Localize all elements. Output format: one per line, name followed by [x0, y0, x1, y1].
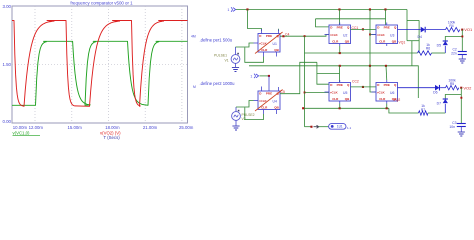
meter U7 [329, 124, 346, 130]
ground below C3 [458, 131, 465, 133]
node dot rail2-c [385, 65, 387, 67]
diode D6 [435, 85, 439, 91]
ammeter arrow [314, 125, 319, 128]
svg-text:VO1: VO1 [464, 27, 473, 32]
svg-text:U6: U6 [390, 91, 394, 95]
svg-text:15.00m: 15.00m [68, 125, 83, 130]
node dot rail2-b [369, 65, 371, 67]
flip-flop U2 [329, 25, 351, 44]
node dot CC2 [362, 86, 364, 88]
flip-flop U6 [376, 83, 398, 102]
svg-text:PRE: PRE [266, 92, 272, 96]
wire U1 D2 stub [278, 29, 280, 31]
wire U6 QB to line108 [386, 104, 388, 109]
svg-text:U3: U3 [390, 34, 394, 38]
svg-text:R7: R7 [421, 108, 425, 112]
svg-text:>CLK: >CLK [377, 33, 386, 37]
svg-text:25.00m: 25.00m [179, 125, 194, 130]
pulse source V1 [231, 55, 240, 64]
wire U1 CLR loop [245, 48, 264, 63]
svg-text:1.50: 1.50 [2, 62, 11, 67]
wire U5 Q to U6 [351, 86, 377, 88]
node dot VO2 mid [460, 97, 462, 99]
wire arrow to meter [319, 126, 329, 128]
green trace v(VC1) [12, 41, 188, 105]
node dot rail1-c [369, 8, 371, 10]
plot frame [12, 6, 188, 123]
wire U2 CLR to line53 [339, 46, 341, 53]
svg-text:PRE: PRE [337, 83, 343, 87]
resistor R7 [419, 111, 429, 115]
svg-text:1U1: 1U1 [337, 125, 343, 129]
node dot rail1-b [338, 8, 340, 10]
svg-text:10n: 10n [449, 125, 455, 129]
diode D5 [443, 41, 448, 45]
flip-flop U5 [329, 83, 351, 102]
svg-text:M: M [193, 85, 196, 89]
svg-text:D5: D5 [437, 43, 441, 47]
resistor R6 [418, 51, 432, 55]
svg-text:CLR: CLR [332, 39, 339, 43]
wire U4 CLR loop [245, 108, 264, 120]
node dot tie2 [268, 75, 270, 77]
red trace v(VO2) [12, 21, 188, 107]
wire rail1 to U1 D [248, 10, 262, 32]
svg-text:>CLK: >CLK [377, 90, 386, 94]
node dot U5 clk [304, 92, 306, 94]
lead C2 to gnd [461, 55, 463, 59]
node dot U3 clk [369, 34, 371, 36]
wire rail2 to U6 CLK [370, 66, 376, 92]
svg-text:10.00m: 10.00m [13, 125, 28, 130]
svg-text:VQ1: VQ1 [399, 40, 406, 44]
wire rail1 cross down [369, 10, 371, 66]
wire rail2 to U6 PRE [385, 66, 388, 80]
resistor R5 [446, 86, 459, 90]
svg-text:18.00m: 18.00m [105, 125, 120, 130]
svg-text:>CLK: >CLK [330, 33, 339, 37]
wire line108 jog [389, 108, 419, 113]
wire line53 [305, 52, 418, 54]
wire U5 CLK feed [305, 92, 330, 94]
svg-text:D7: D7 [437, 101, 441, 105]
svg-text:>CLK: >CLK [330, 90, 339, 94]
lead U6 Q to D6 [398, 87, 436, 89]
capacitor C2 [458, 51, 467, 53]
diode D7 [443, 99, 448, 103]
lead D4 to R4 [426, 29, 446, 31]
wire VO1 down [461, 30, 463, 52]
svg-text:CLR: CLR [332, 97, 339, 101]
wire tie2 stub [260, 75, 270, 77]
wire tie2 to U4 top [268, 76, 270, 91]
diode D4 [421, 27, 425, 33]
svg-text:1: 1 [250, 75, 252, 79]
node dot VO1 [461, 29, 463, 31]
node dot VO2 [460, 87, 462, 89]
node dot Q1-busA [304, 35, 306, 37]
svg-text:PRE: PRE [384, 83, 390, 87]
node dot line108-a [302, 107, 304, 109]
svg-text:>CLK: >CLK [259, 41, 268, 45]
flip-flop U1 [258, 34, 280, 53]
svg-text:12.00m: 12.00m [29, 125, 44, 130]
node dot meter wire [310, 126, 312, 128]
flip-flop U4 [258, 91, 280, 110]
svg-text:PRE: PRE [384, 26, 390, 30]
wire ladder right [418, 20, 420, 53]
lead D7 to R7 line [444, 104, 446, 113]
wire rail1 to U2 PRE [339, 10, 341, 26]
wire U3 CLK feed [370, 34, 376, 36]
wire line73 [317, 72, 340, 74]
ground below V2 [232, 125, 239, 127]
svg-text:1: 1 [227, 8, 229, 12]
svg-text:VQ2: VQ2 [394, 98, 401, 102]
lead R6 to D5 [432, 52, 446, 54]
wire ladder left [406, 10, 408, 41]
ground below C2 [459, 58, 466, 60]
svg-text:frequency comparator v500 or 1: frequency comparator v500 or 1 [70, 1, 133, 6]
svg-text:CLR: CLR [379, 97, 386, 101]
svg-text:.define per1 500u: .define per1 500u [200, 37, 233, 42]
node dot rail1-d [384, 8, 386, 10]
svg-text:PRE: PRE [337, 26, 343, 30]
svg-text:21.00m: 21.00m [143, 125, 158, 130]
svg-text:PRE: PRE [266, 34, 272, 38]
resistor R4 [446, 27, 460, 31]
svg-text:U1: U1 [273, 42, 277, 46]
svg-text:D4: D4 [418, 35, 422, 39]
wire line18 [316, 18, 386, 20]
svg-text:D6: D6 [433, 91, 437, 95]
svg-text:>CLK: >CLK [259, 99, 268, 103]
wire bus A to meter [305, 126, 312, 128]
lead D6 to R5 [440, 87, 445, 89]
wire ch1 input rail [236, 9, 407, 11]
plot gridlines [34, 6, 36, 123]
svg-text:CLR: CLR [261, 48, 268, 52]
node dot rail2-a [339, 65, 341, 67]
wire ch2 input rail [249, 65, 412, 67]
wire VO2 branch to D7 [445, 95, 461, 100]
svg-text:CLR: CLR [379, 39, 386, 43]
wire VO2 down [460, 88, 462, 124]
wire ladder rung1 [407, 19, 419, 21]
svg-text:22n: 22n [451, 52, 457, 56]
wire V2 to U4 CLK [236, 101, 254, 108]
lead U3 Q to D4 [398, 29, 421, 31]
svg-text:U4: U4 [273, 100, 277, 104]
node dot VO1 branch [461, 36, 463, 38]
svg-text:PULSE1: PULSE1 [214, 53, 227, 57]
svg-text:4M: 4M [191, 35, 196, 39]
lead R7 to D7 [428, 112, 445, 114]
lead C3 to gnd [460, 127, 462, 132]
svg-text:.define per2 1000u: .define per2 1000u [200, 81, 236, 86]
wire U2 D jog [316, 19, 330, 27]
wire VO1 branch to D5 [445, 37, 462, 42]
flip-flop U3 [376, 25, 398, 44]
svg-text:U5: U5 [343, 91, 347, 95]
node dot line108-c [386, 107, 388, 109]
node dot CC1 [362, 28, 364, 30]
wire V1 to U1 CLK [236, 43, 254, 47]
ground below V1 [232, 67, 239, 69]
svg-text:U2: U2 [343, 34, 347, 38]
capacitor C3 [457, 123, 466, 125]
svg-text:R5: R5 [450, 82, 454, 86]
lead D5 to line53 [444, 46, 446, 53]
svg-text:1.1: 1.1 [347, 126, 352, 130]
wire rail2 right jog [411, 41, 413, 66]
wire rail2 to U5 PRE [339, 66, 341, 83]
svg-text:CLR: CLR [261, 105, 268, 109]
svg-text:VO2: VO2 [463, 85, 472, 90]
svg-text:T (Secs): T (Secs) [104, 135, 121, 140]
node dot rail1-a [246, 8, 248, 10]
wire U4 Q up-over [280, 62, 317, 93]
wire vertical bus A [304, 36, 306, 127]
node dot Q1 [282, 35, 284, 37]
svg-text:V1: V1 [225, 59, 229, 63]
wire U5 QB to line108 [339, 104, 341, 109]
wire rail1 to U3 PRE [385, 10, 387, 26]
wire ladder rung2 [407, 40, 419, 42]
pulse source V2 [232, 112, 241, 121]
svg-text:R4: R4 [449, 24, 453, 28]
node dot line53 U2 [339, 52, 341, 54]
svg-text:R6: R6 [426, 47, 430, 51]
wire line108 [303, 107, 389, 109]
svg-text:3.00: 3.00 [2, 4, 11, 9]
svg-text:v(VC1,0): v(VC1,0) [13, 130, 31, 135]
svg-text:0.00: 0.00 [2, 119, 11, 124]
wire U1 Q out [280, 35, 329, 37]
wire U2 Q to U3 [351, 28, 377, 30]
wire Q2 down to U5 D [317, 62, 329, 84]
node dot line108-b [339, 107, 341, 109]
svg-text:CC2: CC2 [352, 79, 359, 83]
